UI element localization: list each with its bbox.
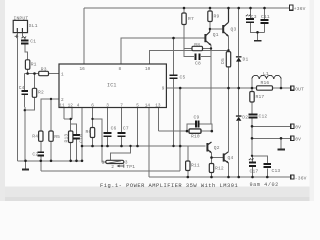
svg-text:R8: R8 xyxy=(194,42,200,48)
svg-text:7: 7 xyxy=(120,103,123,108)
svg-text:INPUT: INPUT xyxy=(14,15,29,21)
svg-text:1: 1 xyxy=(61,72,64,77)
svg-text:TP1: TP1 xyxy=(126,164,135,170)
svg-text:R9: R9 xyxy=(214,14,220,20)
svg-text:9am 4/02: 9am 4/02 xyxy=(250,182,279,188)
svg-text:R10: R10 xyxy=(191,133,200,139)
svg-text:D5: D5 xyxy=(220,58,226,64)
svg-text:13: 13 xyxy=(155,103,161,108)
svg-text:OUT: OUT xyxy=(295,86,304,92)
svg-text:0V: 0V xyxy=(295,136,301,142)
svg-text:C12: C12 xyxy=(259,114,268,120)
svg-text:10: 10 xyxy=(145,67,151,72)
svg-text:Q3: Q3 xyxy=(231,26,237,32)
svg-text:14: 14 xyxy=(145,103,151,108)
svg-text:R3: R3 xyxy=(41,67,47,73)
svg-text:Q1: Q1 xyxy=(213,32,219,38)
svg-text:9: 9 xyxy=(162,86,165,91)
svg-text:R2: R2 xyxy=(38,90,44,96)
svg-text:R7: R7 xyxy=(188,16,194,22)
svg-text:5: 5 xyxy=(136,103,139,108)
svg-text:R1: R1 xyxy=(31,62,37,68)
svg-text:R16: R16 xyxy=(261,80,270,86)
svg-text:D1: D1 xyxy=(243,57,249,63)
svg-text:C3: C3 xyxy=(251,14,257,20)
svg-text:R6: R6 xyxy=(86,129,92,135)
svg-text:R12: R12 xyxy=(215,166,224,172)
svg-text:R5: R5 xyxy=(54,134,60,140)
svg-text:16: 16 xyxy=(80,67,86,72)
svg-text:Q2: Q2 xyxy=(214,145,220,151)
svg-text:C7: C7 xyxy=(123,125,129,131)
svg-text:12: 12 xyxy=(68,103,74,108)
svg-text:C2: C2 xyxy=(32,151,38,157)
svg-text:D2: D2 xyxy=(242,115,248,121)
svg-text:C10: C10 xyxy=(79,134,85,143)
svg-text:C4: C4 xyxy=(19,85,25,91)
svg-text:11: 11 xyxy=(59,103,65,108)
svg-text:3: 3 xyxy=(106,103,109,108)
svg-text:C5: C5 xyxy=(180,75,186,81)
svg-text:C13: C13 xyxy=(272,168,281,174)
svg-text:1: 1 xyxy=(102,159,105,165)
svg-text:6: 6 xyxy=(91,103,94,108)
svg-text:C1: C1 xyxy=(30,39,36,45)
svg-text:R4: R4 xyxy=(32,134,38,140)
svg-text:-36V: -36V xyxy=(295,175,307,181)
svg-text:2: 2 xyxy=(61,98,64,103)
svg-text:SL1: SL1 xyxy=(29,23,38,29)
svg-text:C17: C17 xyxy=(250,169,259,175)
svg-text:IC1: IC1 xyxy=(107,83,117,89)
svg-text:C11: C11 xyxy=(261,14,270,20)
svg-text:8: 8 xyxy=(119,67,122,72)
svg-text:4: 4 xyxy=(77,103,80,108)
svg-text:C8: C8 xyxy=(195,61,201,67)
svg-text:C6: C6 xyxy=(111,125,117,131)
svg-text:Fig.1- POWER AMPLIFIER 35W Wit: Fig.1- POWER AMPLIFIER 35W With LM391 xyxy=(100,183,238,189)
svg-text:L1: L1 xyxy=(263,71,269,77)
svg-text:C9: C9 xyxy=(194,114,200,120)
svg-text:R13: R13 xyxy=(64,134,70,143)
svg-text:0V: 0V xyxy=(295,124,301,130)
svg-text:2: 2 xyxy=(111,164,114,170)
svg-text:R17: R17 xyxy=(256,94,265,100)
svg-text:R11: R11 xyxy=(191,163,200,169)
svg-text:Q4: Q4 xyxy=(228,155,234,161)
svg-text:+36V: +36V xyxy=(294,6,306,12)
